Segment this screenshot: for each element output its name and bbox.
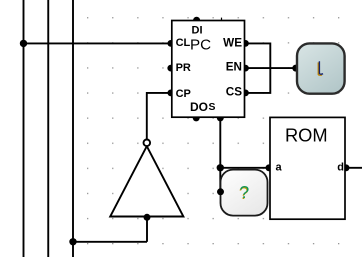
svg-text:DO: DO [190, 100, 208, 114]
'?' button pin dot [217, 188, 224, 195]
pin dot: clock button output [292, 65, 299, 72]
ROM pin d dot [343, 164, 350, 171]
svg-text:PR: PR [176, 62, 191, 74]
pin DO dot (bottom) [193, 114, 200, 121]
wire: vertical bus line 1 [23, 0, 25, 257]
unconnected stub pin on PC top edge [221, 18, 223, 21]
ROM pin a dot [266, 164, 273, 171]
junction: bus3 / bottom wire [69, 238, 76, 245]
svg-text:?: ? [240, 182, 250, 202]
svg-text:d: d [337, 162, 344, 174]
wire: WE to tie rail [245, 43, 271, 68]
wire: PC S pin down to node [219, 118, 221, 192]
wire: bus3 to inverter input (horizontal) [73, 241, 147, 243]
svg-text:WE: WE [223, 36, 242, 49]
wire: bus1 to PC CL pin [24, 42, 173, 44]
wire: ROM d output to right edge [345, 167, 362, 169]
inverter input pin dot [144, 214, 151, 221]
svg-text:PC: PC [190, 37, 211, 54]
wire: EN to clock button [245, 67, 297, 69]
svg-text:CS: CS [226, 85, 242, 98]
wire: CS to tie rail [245, 68, 271, 93]
junction: S wire / ROM a wire [217, 164, 224, 171]
svg-text:EN: EN [226, 61, 242, 74]
svg-text:DI: DI [192, 25, 203, 37]
'?' button body [221, 170, 268, 216]
pin WE dot [242, 40, 249, 47]
svg-text:CP: CP [176, 88, 191, 100]
pin PR dot [167, 65, 174, 72]
wire: node to ROM a pin [220, 167, 271, 169]
pin CL dot [167, 40, 174, 47]
inverter gate (NOT, pointing up) body [110, 146, 183, 216]
svg-text:S: S [209, 102, 216, 113]
wire: vertical bus line 2 [47, 0, 49, 257]
wire: inverter input vertical riser [146, 217, 148, 242]
svg-text:a: a [276, 162, 283, 174]
clock button glyph [319, 61, 323, 74]
clock button glyph shadow [318, 62, 322, 75]
pin EN dot [242, 65, 249, 72]
wire: vertical bus line 3 [72, 0, 74, 257]
svg-text:CL: CL [176, 37, 191, 49]
inverter output bubble [144, 140, 151, 147]
pin DI dot (top) [193, 17, 200, 24]
clock button body [297, 43, 345, 93]
register U1 'PC' body [172, 21, 245, 118]
junction: bus1 / CL wire [20, 40, 27, 47]
wire: PC CP pin to inverter output [147, 93, 172, 140]
pin CS dot [242, 90, 249, 97]
svg-text:ROM: ROM [285, 124, 328, 145]
pin S dot (bottom) [217, 114, 224, 121]
ROM U2 body [270, 117, 345, 219]
pin CP dot [167, 90, 174, 97]
